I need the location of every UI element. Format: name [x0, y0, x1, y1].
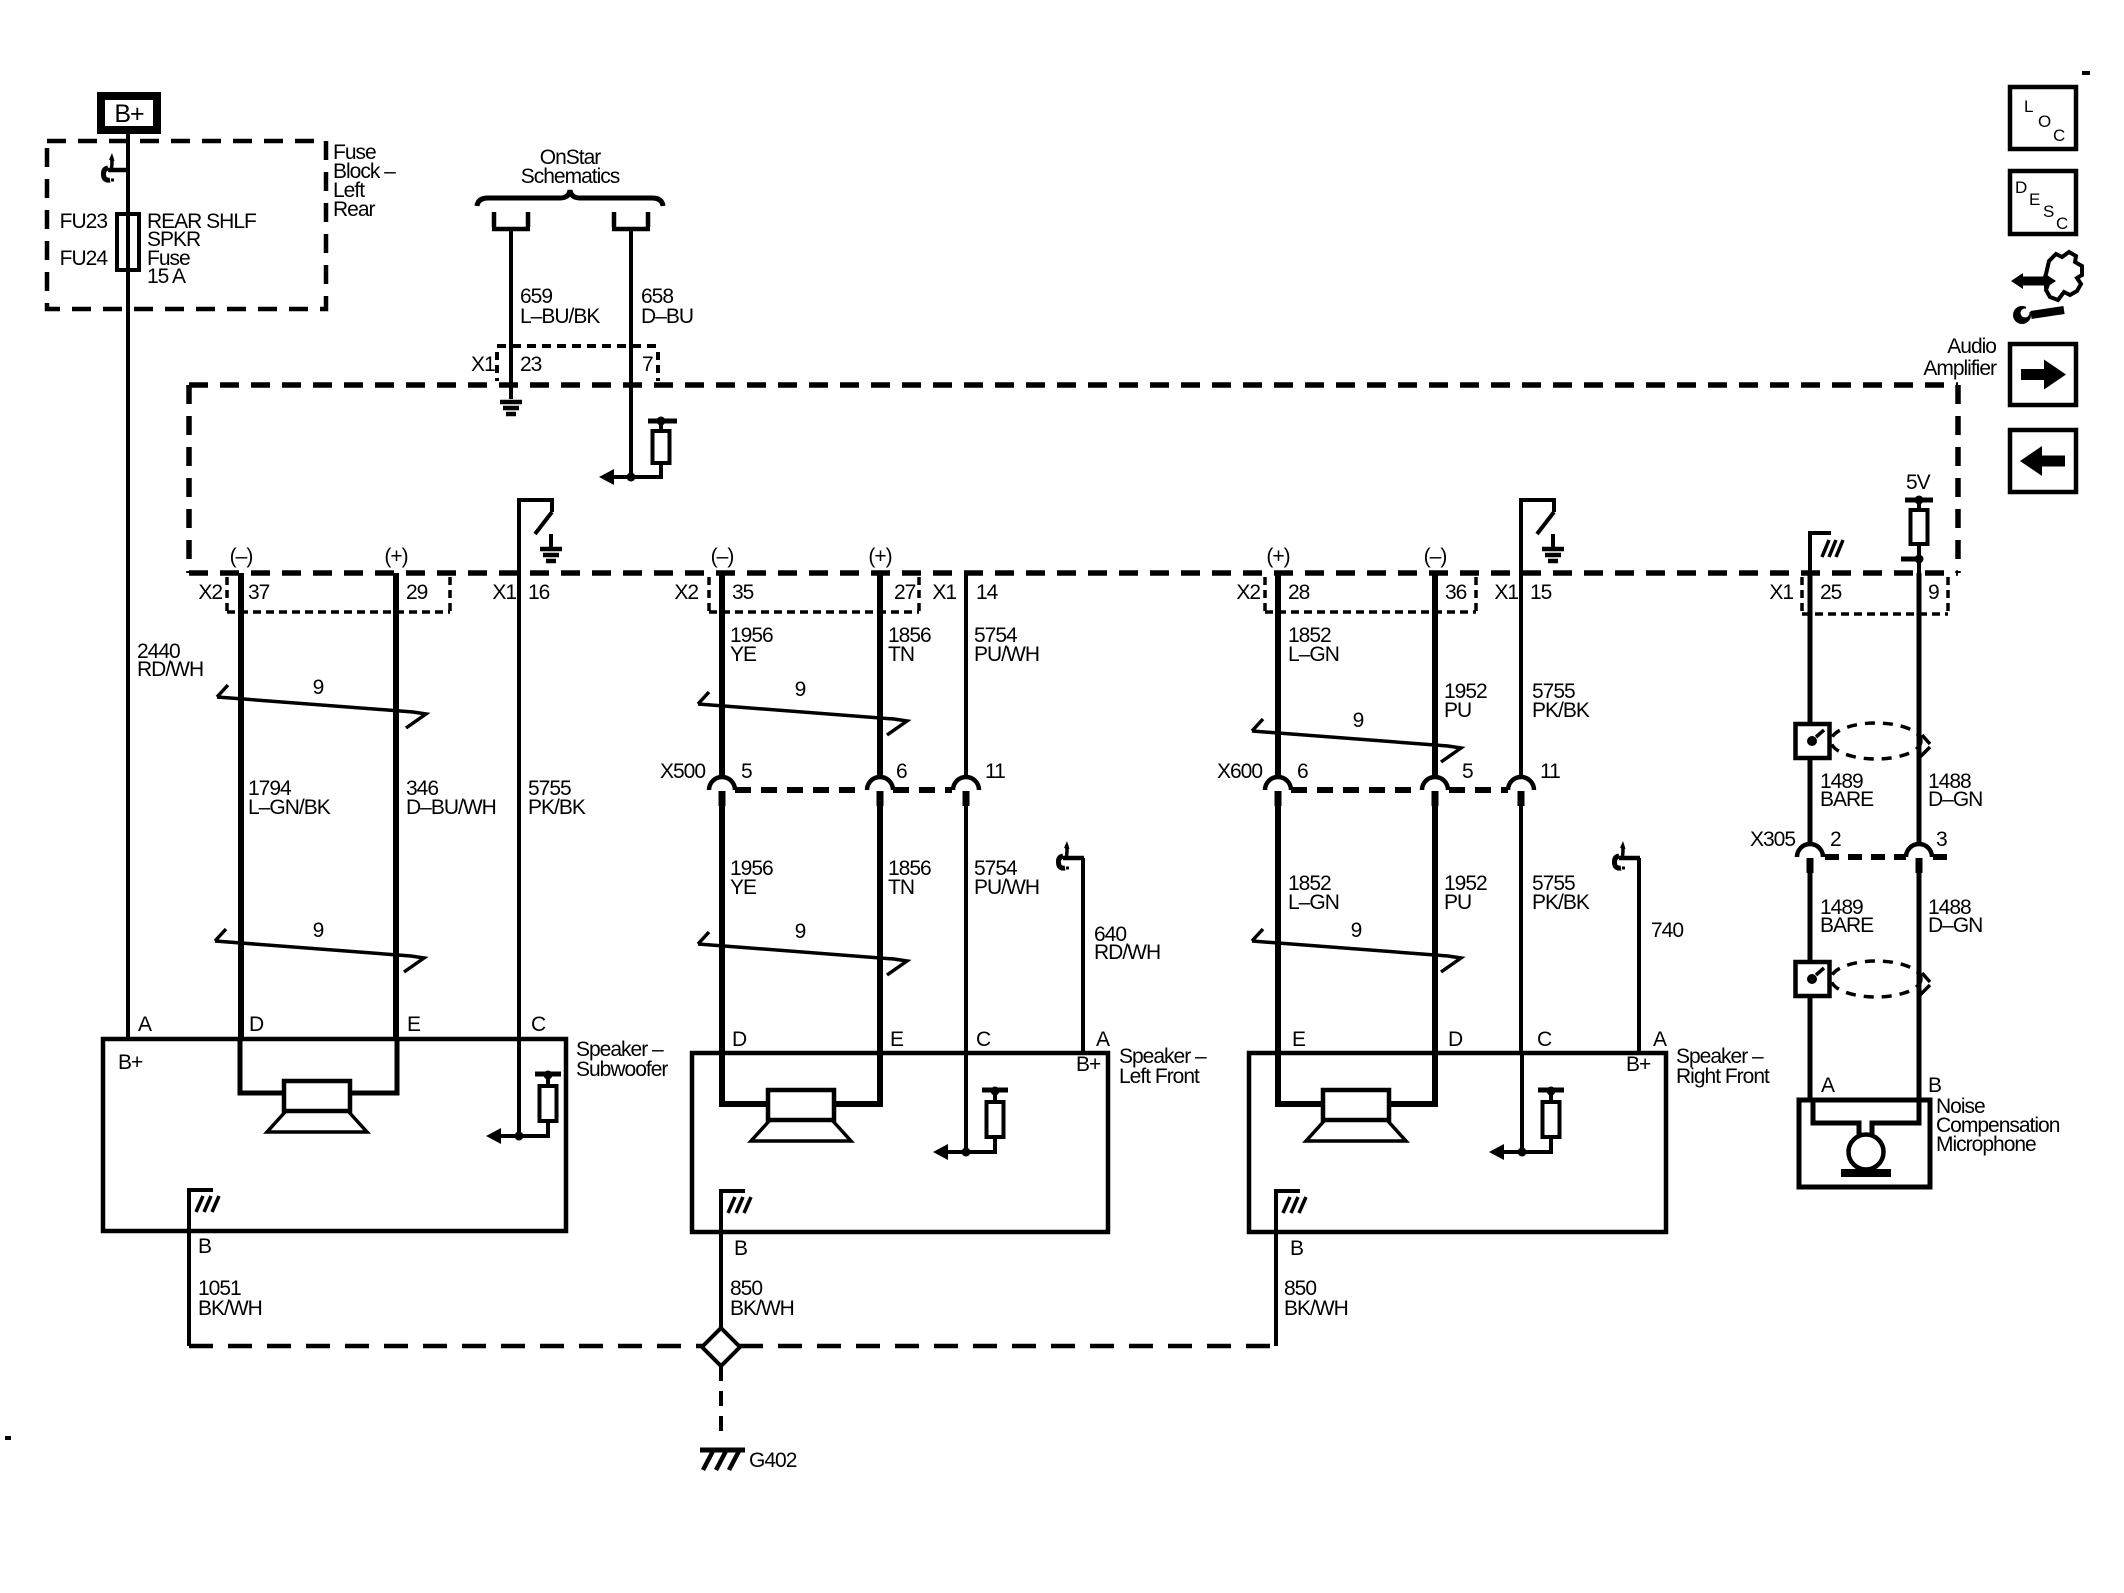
svg-text:7: 7	[642, 353, 653, 376]
svg-text:Rear: Rear	[333, 198, 376, 221]
svg-text:YE: YE	[730, 876, 757, 899]
svg-text:L–GN/BK: L–GN/BK	[248, 796, 331, 819]
svg-text:(–): (–)	[711, 545, 734, 568]
svg-text:E: E	[890, 1028, 904, 1051]
svg-text:11: 11	[1540, 760, 1560, 783]
svg-text:6: 6	[1297, 760, 1308, 783]
svg-text:B: B	[198, 1235, 211, 1258]
svg-text:FU23: FU23	[60, 210, 108, 233]
svg-text:E: E	[2029, 190, 2040, 209]
svg-text:11: 11	[985, 760, 1005, 783]
svg-text:TN: TN	[888, 876, 914, 899]
svg-text:Audio: Audio	[1947, 335, 1996, 358]
svg-text:RD/WH: RD/WH	[1094, 941, 1160, 964]
svg-text:9: 9	[313, 919, 324, 942]
svg-text:6: 6	[896, 760, 907, 783]
svg-text:9: 9	[795, 920, 806, 943]
svg-text:Right Front: Right Front	[1676, 1065, 1770, 1088]
svg-text:X500: X500	[660, 760, 705, 783]
svg-text:D–GN: D–GN	[1928, 788, 1982, 811]
svg-text:5: 5	[1462, 760, 1473, 783]
svg-text:X2: X2	[1236, 581, 1260, 604]
svg-text:PK/BK: PK/BK	[1532, 699, 1590, 722]
svg-text:L–BU/BK: L–BU/BK	[520, 305, 600, 328]
svg-text:Microphone: Microphone	[1936, 1133, 2036, 1156]
svg-text:9: 9	[313, 676, 324, 699]
svg-text:X1: X1	[932, 581, 956, 604]
svg-text:Amplifier: Amplifier	[1923, 357, 1997, 380]
svg-text:Schematics: Schematics	[521, 165, 620, 188]
svg-text:BK/WH: BK/WH	[198, 1297, 262, 1320]
svg-text:PU/WH: PU/WH	[974, 876, 1039, 899]
svg-text:RD/WH: RD/WH	[137, 658, 203, 681]
svg-text:B+: B+	[1076, 1053, 1101, 1076]
svg-text:D: D	[2015, 178, 2027, 197]
svg-text:D: D	[1448, 1028, 1463, 1051]
svg-text:35: 35	[732, 581, 754, 604]
svg-text:C: C	[976, 1028, 991, 1051]
svg-text:X1: X1	[471, 353, 495, 376]
svg-text:16: 16	[528, 581, 550, 604]
svg-text:TN: TN	[888, 643, 914, 666]
svg-text:X1: X1	[1494, 581, 1518, 604]
svg-text:D–GN: D–GN	[1928, 914, 1982, 937]
svg-text:A: A	[1821, 1074, 1835, 1097]
svg-text:C: C	[2056, 214, 2068, 233]
svg-text:BK/WH: BK/WH	[1284, 1297, 1348, 1320]
svg-text:9: 9	[1928, 581, 1939, 604]
svg-text:PU: PU	[1444, 699, 1471, 722]
svg-text:15 A: 15 A	[147, 265, 186, 288]
svg-text:(+): (+)	[868, 545, 891, 568]
svg-text:9: 9	[795, 678, 806, 701]
svg-text:A: A	[138, 1013, 152, 1036]
svg-text:PK/BK: PK/BK	[1532, 891, 1590, 914]
svg-text:D: D	[732, 1028, 747, 1051]
svg-text:X600: X600	[1217, 760, 1262, 783]
svg-text:YE: YE	[730, 643, 757, 666]
svg-text:(–): (–)	[1424, 545, 1447, 568]
svg-text:D–BU: D–BU	[641, 305, 693, 328]
svg-text:X1: X1	[492, 581, 516, 604]
svg-text:(–): (–)	[230, 545, 253, 568]
svg-text:BARE: BARE	[1820, 914, 1874, 937]
svg-text:36: 36	[1445, 581, 1467, 604]
svg-text:Left Front: Left Front	[1119, 1065, 1200, 1088]
svg-text:X2: X2	[674, 581, 698, 604]
svg-text:B: B	[1290, 1237, 1303, 1260]
svg-text:9: 9	[1351, 919, 1362, 942]
svg-text:14: 14	[976, 581, 999, 604]
svg-text:X305: X305	[1750, 828, 1795, 851]
svg-text:25: 25	[1820, 581, 1842, 604]
svg-text:A: A	[1096, 1028, 1110, 1051]
svg-text:B+: B+	[1626, 1053, 1651, 1076]
svg-text:D: D	[249, 1013, 264, 1036]
svg-text:FU24: FU24	[60, 247, 109, 270]
svg-text:15: 15	[1530, 581, 1552, 604]
svg-text:B: B	[1928, 1074, 1941, 1097]
svg-text:D–BU/WH: D–BU/WH	[406, 796, 496, 819]
svg-text:3: 3	[1936, 828, 1947, 851]
svg-text:5: 5	[741, 760, 752, 783]
svg-text:740: 740	[1651, 919, 1683, 942]
svg-text:G402: G402	[749, 1449, 797, 1472]
svg-text:28: 28	[1288, 581, 1310, 604]
svg-text:C: C	[1537, 1028, 1552, 1051]
svg-text:L: L	[2024, 97, 2033, 116]
svg-text:O: O	[2038, 112, 2051, 131]
svg-text:2: 2	[1830, 828, 1841, 851]
svg-text:37: 37	[248, 581, 270, 604]
svg-text:PU/WH: PU/WH	[974, 643, 1039, 666]
svg-text:5V: 5V	[1906, 471, 1931, 494]
svg-text:L–GN: L–GN	[1288, 891, 1339, 914]
svg-text:BARE: BARE	[1820, 788, 1874, 811]
svg-text:C: C	[531, 1013, 546, 1036]
svg-text:9: 9	[1353, 709, 1364, 732]
svg-text:PK/BK: PK/BK	[528, 796, 586, 819]
svg-text:E: E	[1292, 1028, 1306, 1051]
svg-text:Subwoofer: Subwoofer	[576, 1058, 668, 1081]
svg-text:B+: B+	[118, 1051, 143, 1074]
svg-text:(+): (+)	[1266, 545, 1289, 568]
svg-text:PU: PU	[1444, 891, 1471, 914]
svg-text:E: E	[407, 1013, 421, 1036]
svg-text:23: 23	[520, 353, 542, 376]
svg-text:X2: X2	[198, 581, 222, 604]
svg-text:A: A	[1653, 1028, 1667, 1051]
svg-text:C: C	[2053, 126, 2065, 145]
svg-text:BK/WH: BK/WH	[730, 1297, 794, 1320]
svg-text:29: 29	[406, 581, 428, 604]
svg-text:S: S	[2043, 202, 2054, 221]
svg-text:L–GN: L–GN	[1288, 643, 1339, 666]
svg-text:X1: X1	[1769, 581, 1793, 604]
svg-text:B: B	[734, 1237, 747, 1260]
svg-text:B+: B+	[114, 100, 144, 128]
svg-text:27: 27	[894, 581, 916, 604]
svg-text:(+): (+)	[384, 545, 407, 568]
